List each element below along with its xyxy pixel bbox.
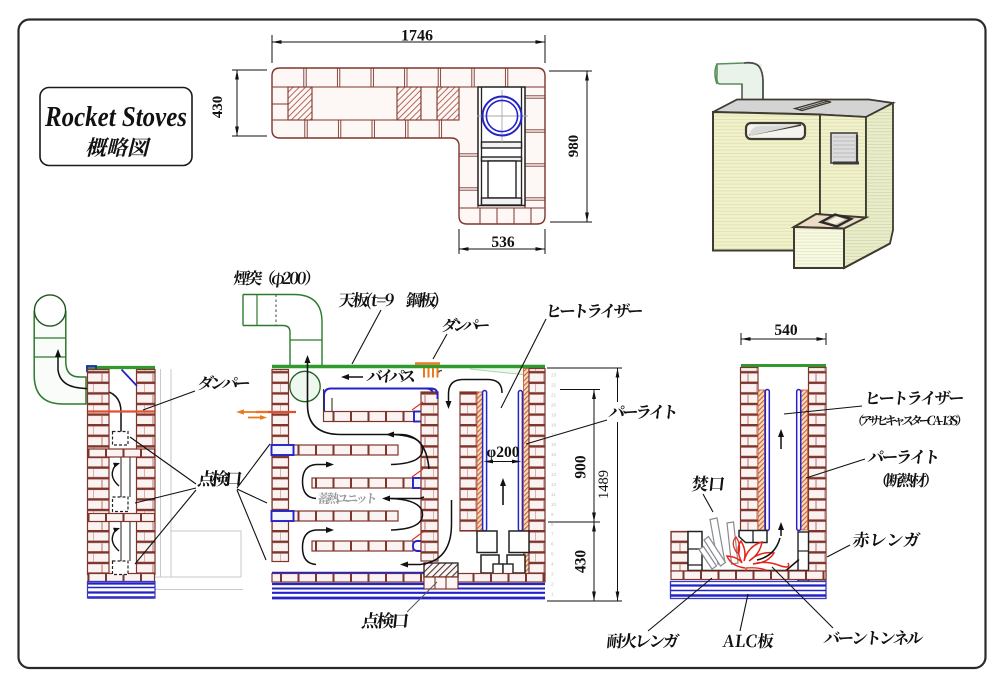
center: riser steel tube (blue) right: [518, 391, 522, 532]
3d view: tower door: [831, 133, 857, 163]
leader: heat riser right: [784, 406, 862, 414]
svg-text:23: 23: [551, 373, 557, 378]
3d view: firebox front face: [794, 227, 844, 268]
center: damper slide arrows (orange): [240, 411, 268, 413]
leader: ALC: [740, 594, 748, 631]
dim 1746 top: [271, 35, 273, 63]
plan view: vertical arm left band joints: [459, 153, 478, 155]
center: riser left brick column: [460, 392, 477, 531]
left view: inspection port 2 (dashed): [113, 497, 129, 512]
right view: dim 540: [740, 333, 742, 345]
svg-text:1: 1: [551, 591, 554, 596]
center: bricks below hatch box: [424, 577, 458, 589]
svg-text:430: 430: [210, 96, 226, 119]
plan view: top band brick joints: [303, 68, 305, 87]
left view: pipe seam lines: [34, 337, 66, 339]
center: base blue band 2: [272, 592, 545, 594]
center: phi200 dimension: [487, 461, 518, 463]
label: ALC ban: [722, 633, 774, 648]
3d view: chimney pipe (green elbow): [742, 63, 762, 99]
center: chimney seam horizontal: [290, 339, 322, 341]
svg-text:6: 6: [551, 542, 554, 547]
center: riser bottom support blocks: [477, 531, 497, 553]
center: maze right wall: [421, 392, 438, 561]
svg-text:2: 2: [551, 581, 554, 586]
right view: bottom slab brick row: [671, 571, 826, 580]
center: top plate (green, t=9 steel): [272, 365, 545, 368]
center: chimney seam solid: [256, 295, 258, 326]
center: left brick wall: [272, 370, 289, 562]
label: takiguchi: [691, 476, 724, 492]
3d view: right tower front face: [820, 115, 866, 229]
plan view: inner band lines: [273, 86, 545, 88]
leader: damper-left: [143, 391, 195, 410]
plan view: left band joint: [287, 87, 289, 120]
label: taika renga: [606, 633, 679, 648]
svg-text:980: 980: [566, 135, 582, 158]
center: blue corner piece top of right wall: [426, 389, 438, 400]
3d view: top face (gray): [713, 100, 893, 118]
plan view: heat riser pipe circles (phi200): [483, 97, 522, 136]
center: riser insulation strips (perlite): [477, 392, 483, 531]
center: downdraft-to-bottom S curve and exit arrow: [404, 500, 452, 565]
center: downdraft arch from riser top: [449, 380, 503, 405]
center: shelf C (attached right): [312, 478, 413, 488]
plan view: inner chamber steel duct walls: [478, 87, 525, 206]
svg-text:14: 14: [551, 462, 557, 467]
svg-text:536: 536: [491, 234, 515, 251]
svg-text:1746: 1746: [401, 28, 433, 45]
label: asahi caster: [859, 415, 961, 427]
dim 430 left: [232, 69, 267, 71]
right view: base blue layers: [671, 582, 827, 599]
label: bypass: [366, 369, 415, 382]
dim 430: [593, 522, 595, 601]
center: damper (orange) on top plate: [415, 362, 440, 365]
right view: right narrow white column: [798, 532, 809, 581]
left view: flue arrow up into chimney: [58, 352, 121, 444]
svg-text:15: 15: [551, 452, 557, 457]
center: shelf A (top, with right blue cap): [324, 412, 435, 422]
svg-text:18: 18: [551, 422, 557, 427]
label: heat riser (center): [548, 303, 643, 318]
svg-text:7: 7: [551, 532, 554, 537]
label: tenkenkou hub: [197, 470, 242, 486]
leader: taika renga: [648, 578, 712, 631]
title box: [40, 88, 192, 166]
center: maze U-turn right around shelf D: [391, 499, 423, 531]
plan view: vertical arm right band joints: [525, 95, 545, 97]
svg-text:19: 19: [551, 412, 557, 417]
label: chikunetsu unit: [317, 492, 375, 504]
svg-text:11: 11: [551, 492, 556, 497]
center: base blue band 1: [272, 583, 424, 585]
right view: flow arrow from fire up riser: [757, 538, 780, 560]
3d view: firebox top face: [794, 214, 866, 229]
center: shelf B (attached left): [294, 445, 399, 455]
center: maze U-turn right around shelf B: [391, 435, 423, 465]
label: damper (left view): [198, 375, 250, 390]
svg-text:22: 22: [551, 382, 557, 387]
center: damper slide line (red): [256, 411, 296, 413]
center: shelf A support pillar: [323, 389, 325, 411]
label: damper (center): [442, 318, 490, 332]
label: tenkenkou bottom: [361, 612, 408, 628]
center: green wedge under plate: [470, 369, 545, 377]
3d view: top feed slot outline: [795, 101, 831, 111]
label: aka renga: [852, 532, 920, 548]
right view: riser up arrow (upper): [780, 432, 782, 449]
center: maze U-turn left around shelf C: [303, 465, 317, 499]
center: duct corner at damper: [438, 371, 443, 378]
svg-text:900: 900: [573, 455, 590, 479]
center: bypass duct floor (blue): [324, 389, 434, 412]
dim 536 bottom: [458, 229, 460, 254]
left view: chimney pipe outline (green): [34, 311, 86, 404]
label: heat riser (right): [867, 390, 964, 405]
svg-text:φ200: φ200: [487, 444, 520, 461]
center: chimney elbow pipe (green): [243, 295, 322, 367]
plan view: center mark crosshair: [477, 115, 528, 117]
left view: inner flue duct walls: [120, 457, 122, 497]
center: maze arrow row y530 (rightward): [316, 529, 329, 531]
dim 980 right: [549, 70, 592, 72]
label: perlite (center): [608, 405, 676, 419]
right view: firewood sticks: [710, 518, 725, 564]
left view: chimney pipe end circle: [34, 295, 65, 326]
left view: circulation arrow 2: [112, 529, 119, 551]
svg-text:430: 430: [573, 550, 590, 574]
svg-text:16: 16: [551, 442, 557, 447]
leader: tenban to plate: [352, 310, 381, 364]
center: flow arrow - exhaust to chimney: [308, 358, 430, 469]
label: tenban t=9 kouhan: [338, 292, 439, 309]
center: bottom slab brick row left: [272, 574, 424, 583]
svg-text:13: 13: [551, 472, 557, 477]
center: right brick column: [529, 369, 545, 574]
plan view: hatched firebrick blocks: [288, 87, 312, 120]
left view: internal shelf 1: [88, 449, 155, 457]
plan view: white cells next to hatched blocks: [421, 87, 437, 120]
center: maze U-turn left around shelf E: [303, 530, 317, 565]
label: dannetsuzai: [883, 473, 930, 488]
left view: inspection port 1 (dashed): [113, 432, 129, 446]
plan view: bottom band brick joints (horizontal arm): [304, 120, 306, 138]
center: bottom slab brick row right: [458, 574, 545, 583]
svg-text:10: 10: [551, 502, 557, 507]
right view: tube base blocks: [739, 531, 767, 543]
center: bottom slab blue top line: [272, 572, 424, 574]
plan view: outer L-shaped wall outline: [272, 68, 545, 224]
plan view: chamber cross bars: [482, 142, 522, 148]
leaders: tenkenkou hub left: [135, 488, 196, 503]
center: inspection hatch box: [424, 563, 458, 577]
left view: base blue layers: [88, 582, 155, 584]
leader: burn tunnel: [772, 567, 833, 628]
leader: damper-center: [433, 334, 447, 359]
leader: aka renga: [827, 545, 850, 557]
leader: tenkenkou bottom: [407, 582, 437, 612]
leader: takiguchi: [703, 494, 713, 512]
leader: perlite right: [806, 459, 865, 478]
dim 1489: [547, 367, 622, 369]
left view: hidden outline (gray) of bench behind: [160, 369, 162, 577]
left view: top plate (green): [86, 366, 155, 369]
svg-text:Rocket Stoves: Rocket Stoves: [44, 102, 187, 133]
leader: perlite center: [526, 420, 607, 444]
right view: riser tube (blue): [765, 390, 769, 531]
center: riser up arrow: [502, 482, 504, 505]
right view: flames (red): [727, 541, 789, 568]
svg-text:540: 540: [774, 322, 798, 339]
3d view: firebox right edge shadow: [844, 244, 890, 269]
left view: circulation arrow 1: [112, 464, 119, 486]
leaders: tenkenkou hub right: [237, 444, 270, 488]
right view: corner deflector strut: [786, 560, 799, 571]
svg-text:20: 20: [551, 402, 557, 407]
3d view: front damper slot: [746, 123, 805, 139]
title: gairyakuzu: [85, 137, 152, 157]
right view: left low wall red brick column: [671, 532, 688, 572]
left view: damper slide line (red): [88, 410, 155, 412]
label: burn tunnel: [823, 630, 924, 645]
left view: internal shelf 2: [88, 514, 155, 522]
center: riser steel tube (blue) left: [483, 391, 487, 532]
center: chimney seam dashed: [275, 295, 277, 326]
3d view: main bench front face: [713, 112, 820, 251]
label: perlite (right): [867, 450, 938, 464]
right view: burn tunnel floor line: [688, 570, 808, 572]
3d view: firebox feed opening: [821, 215, 851, 227]
center: chimney pipe circle through plate: [290, 371, 320, 401]
center: maze arrow row y464 (rightward): [316, 464, 329, 466]
left view: internal shelf 3 (bottom): [88, 574, 155, 582]
label: entotsu phi200: [233, 270, 311, 287]
left view: right brick wall: [137, 370, 156, 575]
svg-text:4: 4: [551, 562, 554, 567]
svg-text:12: 12: [551, 482, 557, 487]
svg-text:5: 5: [551, 552, 554, 557]
right view: left low wall white blocks: [688, 532, 702, 572]
left view: inspection port 3 (dashed): [113, 561, 129, 575]
right view: insulation strips: [758, 390, 765, 530]
3d view: right side face (shaded): [844, 103, 893, 268]
right view: green top plate: [741, 364, 826, 367]
svg-text:21: 21: [551, 392, 557, 397]
dim 900: [560, 389, 600, 391]
leader: heat riser center: [501, 319, 546, 408]
svg-text:9: 9: [551, 512, 554, 517]
center: shelf E (attached right): [312, 541, 413, 551]
center: maze arrow row y498 (leftward): [386, 497, 424, 499]
left view: blue corner block on top plate: [87, 366, 96, 372]
plan view: bottom band joints (vertical arm): [479, 208, 481, 224]
left view: blue diagonal strut: [122, 370, 138, 387]
center: bypass arrow: [344, 376, 363, 378]
right view: right brick column: [809, 368, 827, 582]
left view: left brick wall: [88, 370, 110, 575]
svg-text:1489: 1489: [596, 470, 612, 499]
center: shelf D (attached left): [294, 511, 399, 521]
right view: left brick column: [741, 368, 759, 532]
svg-text:3: 3: [551, 572, 554, 577]
center: red diagonals at shelf caps: [412, 402, 423, 410]
